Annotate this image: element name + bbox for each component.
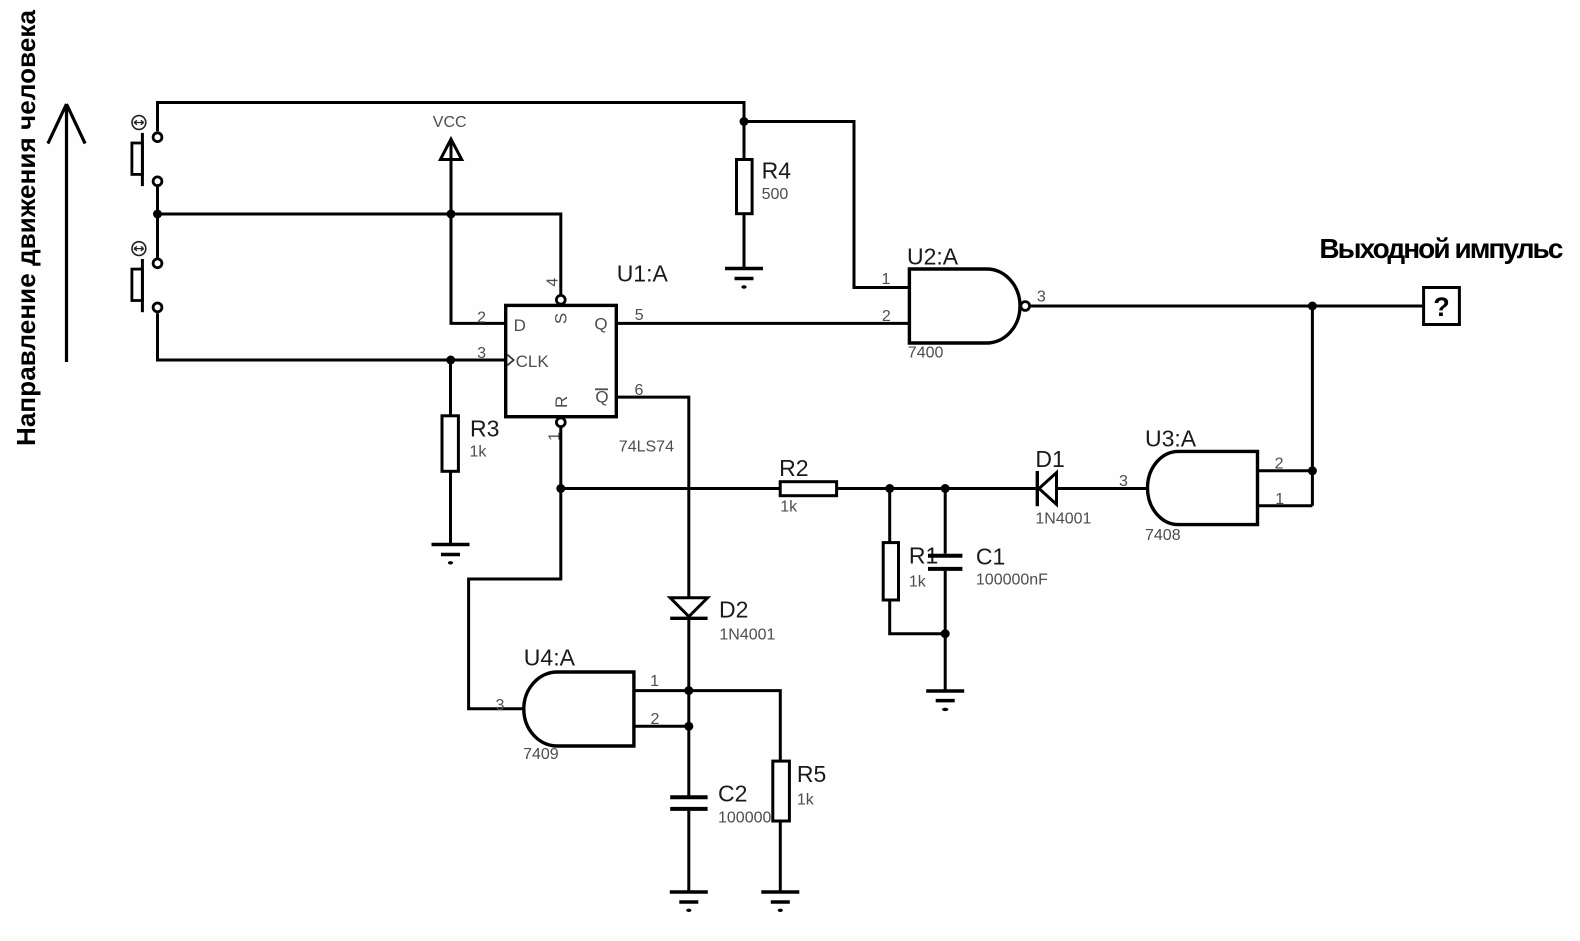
pin R bubble bbox=[556, 418, 565, 427]
svg-text:3: 3 bbox=[1119, 473, 1128, 490]
junction mid rail / VCC column bbox=[447, 210, 456, 219]
ground (R4) bbox=[725, 269, 763, 289]
AND gate U3:A (mirrored) bbox=[1148, 451, 1258, 524]
junction at R4 branch bbox=[740, 117, 749, 126]
svg-text:1N4001: 1N4001 bbox=[719, 627, 775, 644]
wire: U3 pin 1 stub bbox=[1258, 504, 1313, 507]
wire: R2 to D1 bbox=[837, 487, 1036, 490]
wire: U2 output rail to ? box bbox=[1031, 305, 1424, 308]
svg-text:U3:A: U3:A bbox=[1145, 426, 1197, 452]
svg-text:1: 1 bbox=[881, 271, 890, 288]
junction output rail bbox=[1308, 302, 1317, 311]
ground (R5) bbox=[761, 892, 799, 912]
svg-text:100000nF: 100000nF bbox=[976, 572, 1048, 589]
junction C1 branch bbox=[941, 484, 950, 493]
svg-text:R4: R4 bbox=[762, 158, 792, 184]
svg-text:R5: R5 bbox=[797, 761, 826, 787]
svg-text:D: D bbox=[514, 316, 526, 335]
junction R1 branch bbox=[885, 484, 894, 493]
junction at mid rail bbox=[153, 210, 162, 219]
wire: C2 to ground bbox=[687, 811, 690, 891]
wire: node to R2 bbox=[561, 487, 780, 490]
resistor R3 bbox=[442, 416, 458, 472]
wire: SW1 top to top rail to R4 bbox=[158, 103, 745, 160]
wire: Q-bar output to D2 bbox=[616, 397, 689, 598]
svg-text:R3: R3 bbox=[470, 415, 499, 441]
svg-text:1k: 1k bbox=[470, 443, 488, 460]
power VCC bbox=[440, 139, 461, 159]
svg-text:1k: 1k bbox=[797, 792, 815, 809]
wire: output rail down to U3 pins bbox=[1311, 306, 1314, 506]
wire: D1 to U3 output bbox=[1058, 487, 1148, 490]
diode D2 bbox=[670, 598, 707, 619]
resistor R5 bbox=[773, 761, 790, 821]
svg-text:5: 5 bbox=[635, 307, 644, 324]
wire: U4 pin 2 stub bbox=[634, 725, 689, 728]
capacitor C1 bbox=[928, 556, 962, 569]
svg-text:1: 1 bbox=[650, 673, 659, 690]
wire: node to U4 pin 3 bbox=[469, 489, 561, 709]
NAND gate U2:A bbox=[909, 269, 1020, 343]
U2 output bubble bbox=[1021, 302, 1030, 311]
junction at U3 pin 2 bbox=[1308, 466, 1317, 475]
svg-text:3: 3 bbox=[496, 697, 505, 714]
resistor R2 bbox=[780, 482, 836, 496]
resistor R1 bbox=[883, 543, 898, 600]
wire: R1 bottom to C1 bottom node bbox=[890, 600, 946, 634]
wire: SW2 bottom to CLK pin of U1 bbox=[158, 313, 506, 360]
direction arrow bbox=[48, 104, 85, 362]
svg-text:1k: 1k bbox=[780, 498, 798, 515]
wire: mid rail to S pin of U1 bbox=[158, 214, 561, 294]
flip-flop U1:A body bbox=[506, 305, 617, 416]
svg-text:7408: 7408 bbox=[1145, 527, 1181, 544]
wire: Q output to U2 pin 2 bbox=[616, 322, 909, 325]
pushbutton SW1 motion symbol bbox=[132, 116, 146, 130]
svg-text:U2:A: U2:A bbox=[907, 243, 959, 269]
wire: R3 to ground bbox=[449, 471, 452, 543]
svg-text:R2: R2 bbox=[779, 455, 808, 481]
svg-text:Q: Q bbox=[594, 314, 607, 333]
ground (C2) bbox=[670, 892, 708, 912]
svg-text:U1:A: U1:A bbox=[617, 260, 669, 286]
svg-text:Направление движения человека: Направление движения человека bbox=[11, 9, 41, 446]
svg-text:500: 500 bbox=[762, 186, 789, 203]
svg-text:U4:A: U4:A bbox=[524, 644, 576, 670]
diode D1 bbox=[1037, 471, 1056, 506]
capacitor C2 bbox=[670, 797, 707, 809]
svg-text:Q: Q bbox=[595, 388, 608, 407]
clock input triangle bbox=[507, 355, 513, 366]
svg-text:1k: 1k bbox=[909, 574, 927, 591]
svg-text:2: 2 bbox=[477, 310, 486, 327]
wire: U4 pin 1 to R5 bbox=[634, 691, 780, 762]
wire: junction down to R1 bbox=[888, 489, 891, 543]
ground (C1) bbox=[926, 691, 964, 711]
svg-text:2: 2 bbox=[882, 308, 891, 325]
svg-text:S: S bbox=[552, 313, 571, 324]
svg-text:7409: 7409 bbox=[523, 746, 559, 763]
wire: R4 to ground bbox=[743, 214, 746, 267]
svg-text:VCC: VCC bbox=[433, 114, 467, 131]
output box "?" bbox=[1424, 288, 1460, 325]
svg-text:C1: C1 bbox=[976, 544, 1005, 570]
junction C1 bottom bbox=[941, 629, 950, 638]
wire: SW1 bottom to SW2 top bbox=[156, 187, 159, 258]
wire: R4 branch to U2 pin 1 bbox=[744, 122, 909, 288]
svg-text:3: 3 bbox=[477, 345, 486, 362]
wire: U3 pin 2 stub bbox=[1258, 469, 1313, 472]
svg-text:4: 4 bbox=[545, 278, 562, 287]
wire: C1 top bbox=[944, 489, 947, 554]
svg-text:R: R bbox=[552, 396, 571, 408]
junction U4 pin 1 bbox=[684, 686, 693, 695]
junction R-pin node bbox=[556, 484, 565, 493]
wire: VCC to D pin of U1 bbox=[451, 142, 506, 323]
wire: CLK junction to R3 bbox=[449, 360, 452, 416]
svg-text:1N4001: 1N4001 bbox=[1035, 511, 1091, 528]
svg-text:Выходной импульс: Выходной импульс bbox=[1319, 233, 1563, 264]
svg-text:3: 3 bbox=[1037, 289, 1046, 306]
svg-text:7400: 7400 bbox=[908, 345, 944, 362]
wire: C1 bottom to ground bbox=[944, 571, 947, 690]
svg-text:?: ? bbox=[1433, 292, 1450, 322]
junction U4 pin 2 bbox=[684, 722, 693, 731]
resistor R4 bbox=[737, 160, 753, 214]
junction CLK rail / R3 column bbox=[446, 356, 455, 365]
pushbutton SW2 motion symbol bbox=[132, 242, 146, 256]
wire: R pin down to node bbox=[559, 427, 562, 489]
AND gate U4:A (mirrored) bbox=[524, 672, 634, 746]
pushbutton SW2 bbox=[132, 259, 162, 312]
pushbutton SW1 bbox=[132, 133, 162, 186]
svg-text:74LS74: 74LS74 bbox=[619, 438, 674, 455]
pin S bubble bbox=[556, 295, 565, 304]
wire: D2 to C2 bbox=[687, 620, 690, 796]
wire: R5 to ground bbox=[779, 821, 782, 891]
svg-text:CLK: CLK bbox=[516, 352, 550, 371]
svg-text:D2: D2 bbox=[719, 597, 748, 623]
ground (R3) bbox=[432, 545, 470, 565]
svg-text:D1: D1 bbox=[1035, 446, 1064, 472]
svg-text:C2: C2 bbox=[718, 781, 747, 807]
